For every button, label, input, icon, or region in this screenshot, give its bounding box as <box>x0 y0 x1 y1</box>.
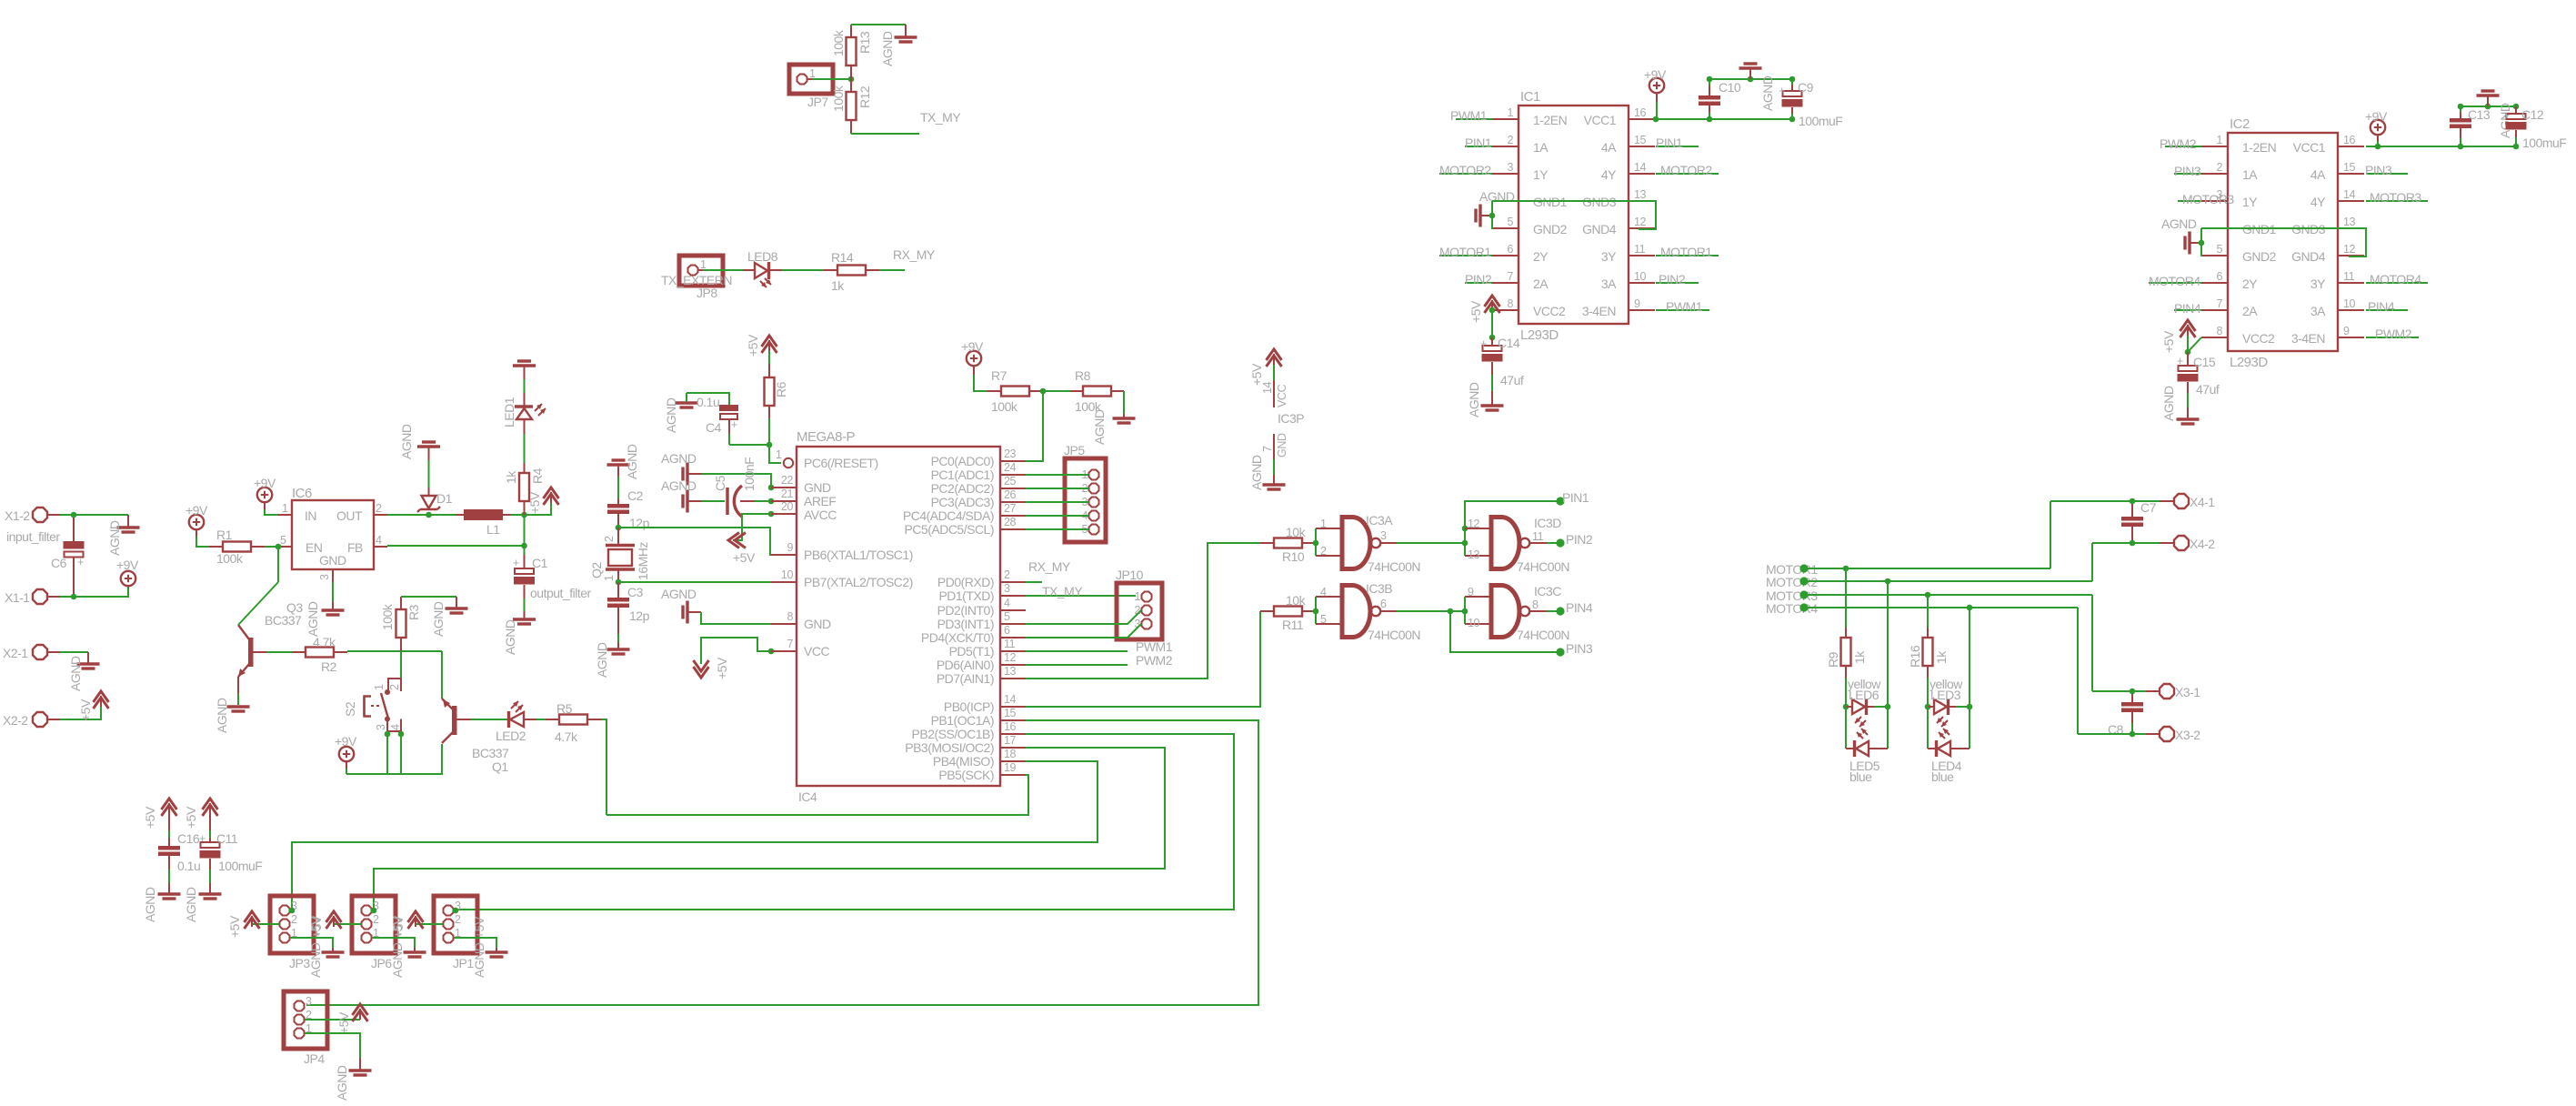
svg-text:PD1(TXD): PD1(TXD) <box>938 588 994 603</box>
node MOTOR1 label <box>1766 562 2050 577</box>
svg-text:+5V: +5V <box>1468 300 1483 323</box>
junction pin22 <box>768 485 775 491</box>
svg-text:R8: R8 <box>1075 368 1091 383</box>
svg-text:AGND: AGND <box>335 1065 349 1101</box>
svg-text:X3-2: X3-2 <box>2175 728 2200 742</box>
ground AGND right of R3 <box>431 601 468 637</box>
wire PB4 to JP3 pin3 <box>292 761 1098 910</box>
svg-text:Q2: Q2 <box>589 562 604 578</box>
ground AGND below Q3 <box>215 698 250 733</box>
jumper JP1 <box>434 896 486 978</box>
wire R6 node <box>768 418 770 445</box>
svg-text:+5V: +5V <box>336 1011 351 1034</box>
svg-text:+5V: +5V <box>746 334 760 357</box>
svg-text:GND: GND <box>804 480 831 495</box>
svg-text:AGND: AGND <box>308 942 323 978</box>
jumper JP10 <box>1116 568 1162 639</box>
RESET bubble pin1 <box>776 448 793 468</box>
svg-text:4.7k: 4.7k <box>313 635 336 649</box>
svg-text:8: 8 <box>787 610 793 623</box>
svg-text:PC5(ADC5/SCL): PC5(ADC5/SCL) <box>904 522 994 537</box>
IC IC4 MEGA8-P <box>771 429 1026 804</box>
label PWM1 at PD5 <box>1026 639 1173 654</box>
svg-text:C16: C16 <box>177 831 200 846</box>
svg-text:5: 5 <box>280 534 286 547</box>
resistor R2 4.7k <box>266 635 347 674</box>
wire OUT to D1 node <box>387 514 456 516</box>
wire R12 to TX_MY <box>851 133 919 135</box>
junction EN node <box>276 544 282 550</box>
svg-text:LED8: LED8 <box>747 249 778 264</box>
connector X1-1 <box>5 589 60 605</box>
resistor R10 10k <box>1260 525 1316 564</box>
svg-text:JP4: JP4 <box>304 1051 325 1066</box>
svg-text:TX_MY: TX_MY <box>920 110 961 125</box>
svg-text:17: 17 <box>1004 734 1017 747</box>
supply +9V below S2 <box>335 734 357 774</box>
svg-text:26: 26 <box>1004 488 1017 501</box>
svg-text:+5V: +5V <box>733 550 756 565</box>
wire JP7 to divider <box>812 78 851 80</box>
svg-text:AGND: AGND <box>1467 382 1481 417</box>
svg-text:PB3(MOSI/OC2): PB3(MOSI/OC2) <box>905 740 994 755</box>
label MOTOR4 at IC2 pin11 <box>2366 272 2428 287</box>
LED LED6 yellow <box>1843 677 1891 727</box>
svg-text:100muF: 100muF <box>1799 114 1842 128</box>
junction FB/C1 node <box>521 543 527 549</box>
label MOTOR1 at IC1 pin6 <box>1439 245 1492 259</box>
svg-text:PWM2: PWM2 <box>2375 327 2412 341</box>
svg-text:27: 27 <box>1004 502 1017 515</box>
ground AGND above D1 (flipped) <box>399 424 440 488</box>
svg-text:PIN3: PIN3 <box>2365 163 2392 177</box>
resistor R4 1k <box>504 463 545 515</box>
svg-text:MOTOR1: MOTOR1 <box>1660 245 1712 259</box>
svg-text:AGND: AGND <box>1092 409 1107 445</box>
GND loop IC1 pins13/12 <box>1492 201 1656 229</box>
svg-text:21: 21 <box>781 488 794 500</box>
svg-text:2: 2 <box>373 913 379 926</box>
svg-text:blue: blue <box>1849 769 1872 784</box>
wire X3-1 <box>2092 689 2146 695</box>
svg-text:AGND: AGND <box>664 397 678 433</box>
ground AGND at IC1 pins4/5 <box>1476 189 1515 229</box>
svg-text:10: 10 <box>781 568 794 581</box>
svg-text:PB4(MISO): PB4(MISO) <box>933 754 994 769</box>
svg-text:JP10: JP10 <box>1116 568 1144 582</box>
svg-text:PB5(SCK): PB5(SCK) <box>938 768 994 782</box>
resistor R11 10k <box>1260 593 1316 632</box>
svg-text:9: 9 <box>787 541 793 554</box>
svg-text:PIN1: PIN1 <box>1656 136 1683 150</box>
svg-text:+9V: +9V <box>254 476 276 490</box>
svg-text:1k: 1k <box>1852 650 1867 664</box>
svg-text:+: + <box>1480 337 1487 350</box>
wire R3 to S2 pin2 <box>388 651 401 679</box>
junction C4/R6 <box>767 442 773 448</box>
svg-text:100k: 100k <box>216 551 244 566</box>
svg-text:GND: GND <box>804 617 831 631</box>
capacitor C11 100muF with +5V/AGND <box>184 799 262 922</box>
svg-text:+5V: +5V <box>143 806 157 829</box>
svg-text:AGND: AGND <box>68 656 83 691</box>
svg-text:74HC00N: 74HC00N <box>1517 559 1569 574</box>
svg-text:PB2(SS/OC1B): PB2(SS/OC1B) <box>912 727 994 741</box>
ground AGND at JP1 pin1 <box>454 938 508 957</box>
inductor L1 <box>456 509 510 537</box>
supply +9V at R7 <box>961 339 987 391</box>
svg-text:+: + <box>2177 355 2183 367</box>
svg-text:+5V: +5V <box>309 915 324 938</box>
crystal Q2 16MHz <box>589 528 650 582</box>
svg-text:PIN4: PIN4 <box>2174 301 2201 316</box>
svg-text:IC3D: IC3D <box>1534 516 1561 530</box>
svg-text:10: 10 <box>1468 617 1480 629</box>
resistor R1 100k <box>209 528 265 566</box>
wire X2-1 to AGND <box>60 651 88 653</box>
svg-text:PIN3: PIN3 <box>2174 164 2201 178</box>
wire PB3 to JP6 pin3 <box>374 748 1165 910</box>
svg-text:IC3P: IC3P <box>1278 411 1304 426</box>
svg-text:12p: 12p <box>629 608 650 623</box>
svg-text:PD0(RXD): PD0(RXD) <box>937 575 994 589</box>
svg-text:6: 6 <box>1380 598 1387 610</box>
label PIN2 at IC1 pin7 <box>1465 272 1492 287</box>
svg-text:MEGA8-P: MEGA8-P <box>797 429 856 445</box>
svg-text:L293D: L293D <box>1520 327 1559 343</box>
svg-text:BC337: BC337 <box>265 613 302 628</box>
svg-text:1: 1 <box>700 258 707 271</box>
svg-text:2: 2 <box>455 913 461 926</box>
svg-text:5: 5 <box>1004 610 1010 623</box>
svg-text:R6: R6 <box>774 381 788 397</box>
supply +5V at JP3 pin2 <box>227 911 279 938</box>
node MOTOR4 label <box>1766 601 2078 616</box>
supply +5V above R6 <box>746 334 777 357</box>
svg-text:74HC00N: 74HC00N <box>1368 559 1420 574</box>
svg-text:MOTOR4: MOTOR4 <box>2149 274 2200 288</box>
svg-text:+: + <box>513 557 519 569</box>
jumper JP4 <box>284 991 327 1066</box>
label PIN3 at IC2 pin15 <box>2365 163 2408 177</box>
svg-text:9: 9 <box>1468 586 1474 598</box>
svg-text:47uf: 47uf <box>2196 382 2220 397</box>
supply +5V down for VCC pin7 <box>694 638 772 679</box>
wire R5 down to PB5 route <box>601 719 606 815</box>
wire AGND to pin22 <box>702 474 771 488</box>
svg-text:IC3A: IC3A <box>1366 513 1393 528</box>
svg-text:C14: C14 <box>1498 336 1520 350</box>
svg-text:6: 6 <box>1004 624 1010 637</box>
NAND gate IC3A <box>1320 513 1420 574</box>
wire PB0 to R11 <box>1026 611 1260 707</box>
GND loop IC2 pins13/12 <box>2201 228 2366 256</box>
svg-text:4.7k: 4.7k <box>555 729 578 744</box>
capacitor C5 100nF <box>702 457 757 517</box>
svg-text:C10: C10 <box>1719 80 1741 95</box>
label MOTOR1 at IC1 pin11 <box>1656 245 1719 259</box>
supply +5V at JP4 pin2 <box>305 1004 368 1034</box>
svg-text:AGND: AGND <box>215 698 229 733</box>
svg-text:+5V: +5V <box>391 915 406 938</box>
svg-text:C12: C12 <box>2521 107 2544 122</box>
svg-text:+: + <box>77 556 84 568</box>
wire PB5 to R5 <box>606 775 1028 815</box>
svg-text:AGND: AGND <box>661 478 697 493</box>
junction <box>71 594 77 600</box>
svg-text:R7: R7 <box>991 368 1007 383</box>
NAND gate IC3D <box>1468 515 1569 574</box>
svg-text:JP1: JP1 <box>453 956 474 970</box>
svg-text:+5V: +5V <box>2161 330 2176 353</box>
wire VCC1 rail IC2 <box>2366 104 2519 150</box>
svg-text:AGND: AGND <box>306 601 320 637</box>
svg-text:PIN3: PIN3 <box>1566 641 1593 656</box>
svg-text:R1: R1 <box>216 528 233 542</box>
wire PD4 diagonal to JP10 pin3 <box>1026 624 1141 638</box>
ground AGND above C2 (flipped) <box>607 460 630 498</box>
capacitor C12 100muF <box>2503 106 2566 150</box>
resistor R16 1k <box>1908 595 1949 707</box>
svg-text:AGND: AGND <box>661 451 697 466</box>
ground AGND for pin8 (rotated) <box>661 587 701 624</box>
svg-text:PWM2: PWM2 <box>1136 653 1173 668</box>
ground AGND for pin22 (rotated) <box>661 451 702 486</box>
svg-text:+9V: +9V <box>335 734 357 749</box>
svg-text:FB: FB <box>347 540 363 555</box>
svg-text:L293D: L293D <box>2230 355 2268 370</box>
svg-text:PC1(ADC1): PC1(ADC1) <box>931 468 994 482</box>
resistor R12 100k <box>831 79 872 134</box>
label PIN4 <box>1547 600 1593 616</box>
svg-text:74HC00N: 74HC00N <box>1517 628 1569 642</box>
ground AGND at JP3 pin1 <box>290 938 345 957</box>
svg-text:MOTOR4: MOTOR4 <box>2370 272 2421 287</box>
power symbol IC3P <box>1249 349 1304 490</box>
svg-text:PC4(ADC4/SDA): PC4(ADC4/SDA) <box>903 508 994 523</box>
wire AGND to pin8 <box>701 612 771 624</box>
svg-text:25: 25 <box>1004 475 1017 488</box>
connector X3-1 <box>2146 684 2200 699</box>
svg-text:C4: C4 <box>706 420 722 435</box>
resistor R9 1k <box>1826 568 1867 707</box>
svg-text:19: 19 <box>1004 761 1017 774</box>
wire node to FB <box>387 545 525 547</box>
wire node to +5V <box>525 501 552 515</box>
svg-text:11: 11 <box>1532 530 1544 543</box>
svg-text:AGND: AGND <box>2161 386 2176 421</box>
wire R3 top to AGND <box>401 597 456 608</box>
svg-text:X1-1: X1-1 <box>5 590 30 605</box>
wire IC3A out to IC3D in <box>1397 542 1465 544</box>
wire divider to pin23 <box>1026 391 1043 461</box>
wires to IC3A inputs <box>1316 528 1342 556</box>
label PWM1 at IC1 pin9 <box>1656 299 1709 314</box>
svg-text:PB1(OC1A): PB1(OC1A) <box>931 713 994 728</box>
svg-text:20: 20 <box>781 500 794 513</box>
svg-text:AGND: AGND <box>1760 75 1775 111</box>
svg-text:2: 2 <box>388 684 401 690</box>
supply +5V at JP6 pin2 <box>309 911 361 938</box>
svg-text:1: 1 <box>1134 590 1140 603</box>
resistor R7 100k <box>987 368 1043 414</box>
svg-text:AGND: AGND <box>472 942 486 978</box>
junction pin20 <box>768 511 775 518</box>
jumper JP7 <box>789 65 833 109</box>
wire X3-2 to MOTOR4 <box>2078 608 2146 737</box>
svg-text:12: 12 <box>1004 651 1017 664</box>
svg-text:TX_MY: TX_MY <box>1042 584 1083 598</box>
capacitor C16 0.1u with +5V/AGND <box>143 799 200 922</box>
wire PB2 to JP1 pin3 <box>457 734 1234 910</box>
connector X4-1 <box>2160 494 2215 509</box>
svg-text:AGND: AGND <box>107 520 122 556</box>
svg-text:0.1u: 0.1u <box>697 395 719 409</box>
svg-text:11: 11 <box>1004 638 1016 650</box>
svg-text:X1-2: X1-2 <box>5 508 30 523</box>
jumper JP6 <box>352 896 405 978</box>
svg-text:JP6: JP6 <box>371 956 392 970</box>
junction pin7 <box>768 649 775 655</box>
label PIN1 at IC1 pin2 <box>1465 136 1492 150</box>
junction IC3D pin12 <box>1462 526 1468 532</box>
wire XTAL1 to pin9 <box>618 528 771 555</box>
supply +9V at IC6 IN <box>254 476 278 515</box>
svg-text:AGND: AGND <box>661 587 697 601</box>
junction R16 top <box>1925 592 1931 598</box>
transistor Q3 BC337 <box>238 547 303 705</box>
capacitor C13 <box>2450 106 2491 146</box>
supply +9V at R1 <box>185 503 209 547</box>
supply +5V at IC1 pin8 <box>1468 296 1500 323</box>
resistor R13 100k <box>831 25 872 79</box>
svg-text:AGND: AGND <box>503 619 517 655</box>
svg-text:IC2: IC2 <box>2230 116 2250 132</box>
svg-text:MOTOR1: MOTOR1 <box>1439 245 1491 259</box>
svg-text:output_filter: output_filter <box>530 586 591 600</box>
connector X3-2 <box>2146 727 2200 742</box>
wire PD7 to R10 <box>1026 543 1260 679</box>
svg-text:VCC: VCC <box>804 644 829 659</box>
svg-text:+5V: +5V <box>184 806 198 829</box>
svg-text:R4: R4 <box>530 468 545 484</box>
svg-text:R3: R3 <box>406 604 421 620</box>
jumper JP5 <box>1064 443 1106 542</box>
label MOTOR3 at IC2 pin3 <box>2178 192 2234 206</box>
svg-text:IC4: IC4 <box>798 789 817 804</box>
capacitor C6 <box>51 518 85 594</box>
junction R11/gate inputs <box>1313 608 1319 615</box>
svg-text:JP3: JP3 <box>289 956 310 970</box>
svg-text:1: 1 <box>373 684 386 690</box>
svg-text:PD6(AIN0): PD6(AIN0) <box>937 658 994 672</box>
svg-text:JP8: JP8 <box>697 286 717 300</box>
IC IC1 L293D <box>1492 89 1655 343</box>
svg-text:C9: C9 <box>1798 80 1814 95</box>
resistor R3 100k <box>380 597 421 651</box>
svg-text:AGND: AGND <box>1249 455 1264 490</box>
svg-text:OUT: OUT <box>336 508 363 523</box>
svg-text:100muF: 100muF <box>218 859 262 873</box>
connector X1-2 <box>5 508 60 523</box>
wire R13 to AGND <box>851 25 906 36</box>
wire AGND to C4 <box>687 393 729 405</box>
svg-text:MOTOR2: MOTOR2 <box>1439 163 1491 177</box>
svg-text:IC3C: IC3C <box>1534 584 1561 598</box>
svg-text:R9: R9 <box>1826 651 1840 668</box>
svg-text:PC6(/RESET): PC6(/RESET) <box>804 456 878 470</box>
svg-text:AGND: AGND <box>2161 216 2197 231</box>
svg-text:C5: C5 <box>713 475 727 491</box>
supply +9V at IC1 pin16 <box>1644 67 1667 122</box>
label MOTOR3 at IC2 pin14 <box>2366 190 2428 205</box>
svg-text:2: 2 <box>291 913 297 926</box>
svg-text:8: 8 <box>1532 598 1539 611</box>
wire VCC1 rail <box>1656 76 1795 123</box>
svg-text:GND: GND <box>1276 433 1288 457</box>
connector X2-1 <box>3 645 60 660</box>
resistor R5 4.7k <box>536 701 601 744</box>
label PIN4 at IC2 pin10 <box>2366 299 2408 314</box>
svg-text:3: 3 <box>1004 582 1010 595</box>
svg-text:C1: C1 <box>532 556 548 570</box>
label PWM2 at IC2 pin1 <box>2160 136 2201 151</box>
svg-text:PIN2: PIN2 <box>1465 272 1492 287</box>
svg-text:74HC00N: 74HC00N <box>1368 628 1420 642</box>
resistor R6 <box>765 351 789 418</box>
svg-text:18: 18 <box>1004 748 1017 760</box>
svg-text:+9V: +9V <box>961 339 984 354</box>
supply +5V near X2-2 <box>78 691 109 721</box>
junction R10/gate inputs <box>1313 540 1319 547</box>
svg-text:+: + <box>1779 85 1785 97</box>
svg-text:C6: C6 <box>51 556 67 570</box>
junction XTAL1 node <box>616 525 622 531</box>
junction C7 top <box>2130 498 2136 505</box>
svg-text:+9V: +9V <box>2365 109 2388 124</box>
svg-text:AREF: AREF <box>804 494 836 508</box>
ground AGND at JP4 pin1 <box>305 1033 372 1101</box>
IC IC2 L293D <box>2201 116 2364 370</box>
IC IC6 regulator <box>278 486 387 582</box>
svg-text:IC1: IC1 <box>1520 89 1540 105</box>
junction D1 node <box>426 512 432 518</box>
svg-text:R11: R11 <box>1282 618 1304 632</box>
svg-text:AGND: AGND <box>880 31 895 66</box>
svg-text:4: 4 <box>1004 597 1010 609</box>
svg-text:100muF: 100muF <box>2522 136 2566 150</box>
transistor Q1 BC337 <box>442 651 509 774</box>
svg-text:IN: IN <box>305 508 316 523</box>
capacitor C3 12p <box>607 582 650 649</box>
svg-text:JP7: JP7 <box>807 95 828 109</box>
ground AGND top <box>880 31 917 66</box>
svg-text:+5V: +5V <box>715 657 729 679</box>
label PWM1 at IC1 pin1 <box>1450 108 1492 123</box>
svg-text:PWM1: PWM1 <box>1666 299 1703 314</box>
supply +9V at IC2 pin16 <box>2365 109 2388 149</box>
svg-text:X4-1: X4-1 <box>2190 495 2215 509</box>
svg-text:3: 3 <box>375 724 387 730</box>
svg-text:IC6: IC6 <box>292 486 312 501</box>
ground AGND above C10/C9 (flipped) <box>1739 64 1776 111</box>
svg-text:MOTOR3: MOTOR3 <box>2370 190 2421 205</box>
junction IC3C input node <box>1462 608 1468 615</box>
wire R14 to RX_MY <box>879 269 905 271</box>
svg-text:AGND: AGND <box>431 601 446 637</box>
svg-text:PC2(ADC2): PC2(ADC2) <box>931 481 994 496</box>
svg-text:VCC: VCC <box>1276 384 1288 407</box>
